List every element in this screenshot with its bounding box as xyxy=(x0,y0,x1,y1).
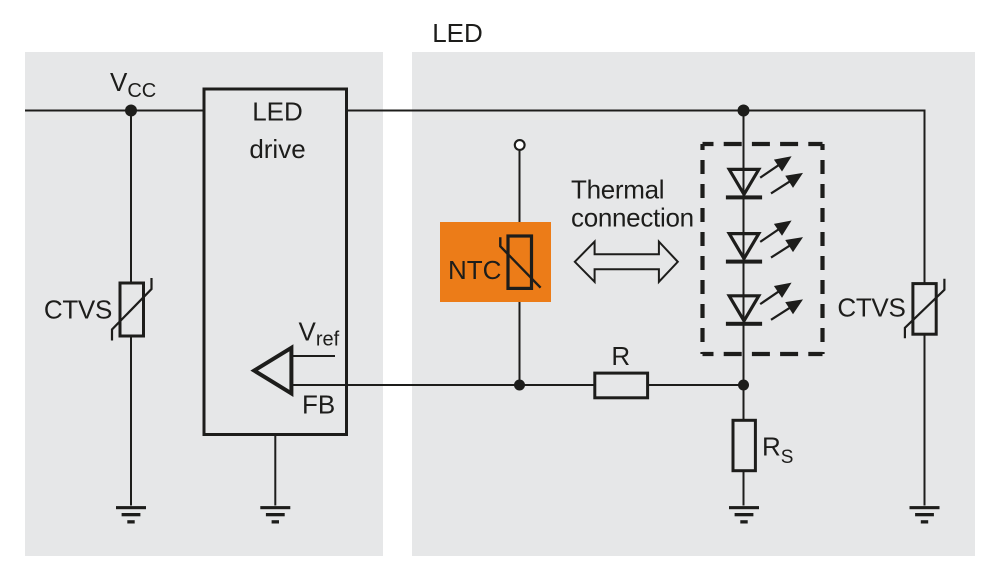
node LED string bottom junction xyxy=(738,380,749,391)
symbol thermal coupling arrow xyxy=(575,242,678,282)
wire left CTVS branch (lower) xyxy=(130,336,132,506)
op-amp error amplifier (inside U1) xyxy=(254,348,291,394)
ground (LED drive) xyxy=(260,506,290,523)
LED D1 xyxy=(726,150,807,199)
svg-text:R: R xyxy=(611,341,630,371)
left panel background xyxy=(25,52,383,556)
node Vcc junction xyxy=(125,105,137,117)
thermistor NTC xyxy=(500,236,540,288)
wire FB feedback line xyxy=(292,384,744,386)
wire NTC branch xyxy=(519,151,521,385)
varistor CTVS (right) xyxy=(905,279,945,338)
svg-text:NTC: NTC xyxy=(448,255,501,285)
LED module dashed box xyxy=(703,144,823,354)
LED D2 xyxy=(726,215,807,264)
resistor Rs xyxy=(733,420,755,470)
ground (right CTVS) xyxy=(910,506,940,523)
svg-text:LED: LED xyxy=(252,97,303,127)
wire Rs branch (lower) xyxy=(743,471,745,506)
svg-text:FB: FB xyxy=(302,390,335,420)
wire LED string xyxy=(743,111,745,386)
wire top supply bus xyxy=(25,110,925,112)
svg-text:LED: LED xyxy=(432,18,483,48)
node FB/NTC junction xyxy=(514,380,525,391)
resistor R xyxy=(595,373,648,398)
wire right CTVS branch (lower) xyxy=(924,334,926,505)
LED D3 xyxy=(726,277,807,326)
varistor CTVS (left) xyxy=(112,278,152,341)
svg-text:CTVS: CTVS xyxy=(44,295,112,325)
right panel background xyxy=(412,52,975,556)
svg-text:connection: connection xyxy=(571,203,694,233)
ground (left CTVS) xyxy=(116,506,146,523)
svg-text:Thermal: Thermal xyxy=(571,175,664,205)
svg-text:drive: drive xyxy=(249,134,305,164)
ground (Rs) xyxy=(729,506,759,523)
block LED drive U1 xyxy=(204,89,347,435)
wire right CTVS branch (upper) xyxy=(924,110,926,284)
node LED string top junction xyxy=(738,105,750,117)
terminal (NTC sense input) xyxy=(515,140,525,150)
svg-text:CTVS: CTVS xyxy=(837,292,905,322)
wire Vref input xyxy=(292,355,336,357)
wire Rs branch (upper) xyxy=(743,385,745,420)
wire left CTVS branch (upper) xyxy=(130,111,132,284)
highlight box (orange, NTC) xyxy=(440,222,551,302)
wire U1 ground stub xyxy=(274,435,276,506)
